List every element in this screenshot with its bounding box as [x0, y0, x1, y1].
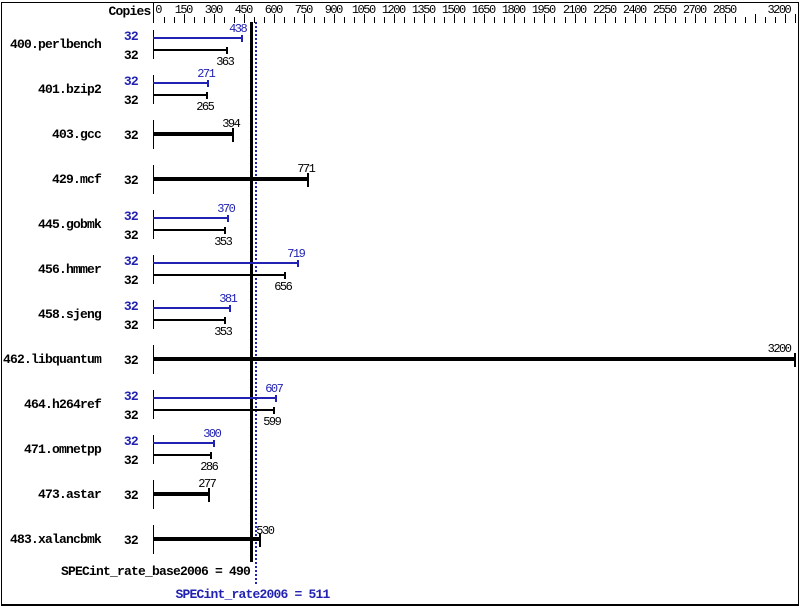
base copies 32 471.omnetpp: [124, 451, 138, 471]
peak median dotted line at 511: [255, 22, 257, 584]
label 400.perlbench: [10, 35, 101, 55]
bar 403.gcc = 394: [153, 132, 233, 136]
bar 473.astar = 277: [153, 492, 209, 496]
x-axis tick marks every 50 units: [164, 17, 165, 23]
label 456.hmmer: [38, 260, 101, 280]
bar 462.libquantum = 3200: [153, 357, 795, 361]
peak bar 471.omnetpp = 300: [153, 442, 214, 444]
label 429.mcf: [52, 170, 101, 190]
base bar end cap 458.sjeng: [224, 317, 226, 324]
base bar 400.perlbench = 363: [153, 49, 227, 51]
copies 32 429.mcf: [124, 171, 138, 191]
base bar 471.omnetpp = 286: [153, 454, 211, 456]
peak bar 456.hmmer = 719: [153, 262, 298, 264]
peak copies 32 458.sjeng: [124, 297, 138, 317]
row start tick 464.h264ref: [153, 390, 154, 419]
base result text: [61, 562, 250, 582]
base copies 32 458.sjeng: [124, 316, 138, 336]
base bar 445.gobmk = 353: [153, 229, 225, 231]
bar end cap 429.mcf: [307, 173, 309, 187]
bar 429.mcf = 771: [153, 177, 308, 181]
peak copies 32 445.gobmk: [124, 207, 138, 227]
base bar 458.sjeng = 353: [153, 319, 225, 321]
frame left border: [1, 2, 2, 605]
frame right border: [798, 2, 799, 605]
base value label 353: [214, 322, 231, 342]
peak copies 32 400.perlbench: [124, 27, 138, 47]
peak bar end cap 400.perlbench: [241, 35, 243, 42]
label 403.gcc: [52, 125, 101, 145]
label 458.sjeng: [38, 305, 101, 325]
row start tick 462.libquantum: [153, 345, 154, 374]
base value label 599: [263, 412, 280, 432]
peak value label 370: [217, 199, 234, 219]
base bar 456.hmmer = 656: [153, 274, 285, 276]
value label 530: [256, 521, 273, 541]
base median line at 490: [250, 22, 253, 562]
peak bar end cap 471.omnetpp: [213, 440, 215, 447]
base bar end cap 471.omnetpp: [210, 452, 212, 459]
x-axis numeric labels: [155, 0, 161, 20]
label 401.bzip2: [38, 80, 101, 100]
peak value label 607: [265, 379, 282, 399]
peak value label 438: [229, 19, 246, 39]
row start tick 458.sjeng: [153, 300, 154, 329]
copies 32 483.xalancbmk: [124, 531, 138, 551]
peak bar end cap 458.sjeng: [229, 305, 231, 312]
copies 32 473.astar: [124, 486, 138, 506]
row start tick 403.gcc: [153, 120, 154, 149]
label 473.astar: [38, 485, 101, 505]
row start tick 473.astar: [153, 480, 154, 509]
header Copies: [109, 2, 151, 22]
peak bar 445.gobmk = 370: [153, 217, 228, 219]
peak value label 300: [203, 424, 220, 444]
row start tick 445.gobmk: [153, 210, 154, 239]
label 462.libquantum: [3, 350, 101, 370]
axis zero line / copies separator: [153, 2, 154, 23]
row start tick 456.hmmer: [153, 255, 154, 284]
peak result text: [176, 585, 330, 605]
frame top border: [1, 2, 799, 3]
row start tick 429.mcf: [153, 165, 154, 194]
base value label 286: [200, 457, 217, 477]
value label 771: [297, 159, 314, 179]
peak bar end cap 456.hmmer: [297, 260, 299, 267]
row start tick 401.bzip2: [153, 75, 154, 104]
base copies 32 464.h264ref: [124, 406, 138, 426]
bar end cap 403.gcc: [232, 128, 234, 142]
copies 32 403.gcc: [124, 126, 138, 146]
label 464.h264ref: [24, 395, 101, 415]
base copies 32 400.perlbench: [124, 46, 138, 66]
row start tick 471.omnetpp: [153, 435, 154, 464]
peak bar 464.h264ref = 607: [153, 397, 276, 399]
peak value label 271: [197, 64, 214, 84]
bar end cap 473.astar: [208, 488, 210, 502]
peak value label 381: [219, 289, 236, 309]
peak bar end cap 445.gobmk: [227, 215, 229, 222]
row start tick 483.xalancbmk: [153, 525, 154, 554]
peak value label 719: [287, 244, 304, 264]
peak copies 32 401.bzip2: [124, 72, 138, 92]
base bar end cap 445.gobmk: [224, 227, 226, 234]
peak copies 32 464.h264ref: [124, 387, 138, 407]
peak copies 32 471.omnetpp: [124, 432, 138, 452]
base bar 401.bzip2 = 265: [153, 94, 207, 96]
bar 483.xalancbmk = 530: [153, 537, 260, 541]
base bar end cap 464.h264ref: [273, 407, 275, 414]
base bar end cap 400.perlbench: [226, 47, 228, 54]
peak bar end cap 464.h264ref: [275, 395, 277, 402]
bar end cap 462.libquantum: [794, 353, 796, 367]
peak bar 458.sjeng = 381: [153, 307, 230, 309]
label 471.omnetpp: [24, 440, 101, 460]
peak bar 400.perlbench = 438: [153, 37, 242, 39]
frame bottom border: [1, 604, 799, 606]
copies 32 462.libquantum: [124, 351, 138, 371]
peak bar 401.bzip2 = 271: [153, 82, 208, 84]
row start tick 400.perlbench: [153, 30, 154, 59]
label 483.xalancbmk: [10, 530, 101, 550]
base value label 656: [274, 277, 291, 297]
bar end cap 483.xalancbmk: [259, 533, 261, 547]
base copies 32 445.gobmk: [124, 226, 138, 246]
base bar end cap 456.hmmer: [284, 272, 286, 279]
base copies 32 401.bzip2: [124, 91, 138, 111]
peak copies 32 456.hmmer: [124, 252, 138, 272]
base bar end cap 401.bzip2: [206, 92, 208, 99]
value label 277: [198, 474, 215, 494]
base value label 265: [196, 97, 213, 117]
base value label 353: [214, 232, 231, 252]
value label 394: [222, 114, 239, 134]
base value label 363: [216, 52, 233, 72]
label 445.gobmk: [38, 215, 101, 235]
base bar 464.h264ref = 599: [153, 409, 274, 411]
value label 3200: [768, 339, 791, 359]
peak bar end cap 401.bzip2: [207, 80, 209, 87]
base copies 32 456.hmmer: [124, 271, 138, 291]
